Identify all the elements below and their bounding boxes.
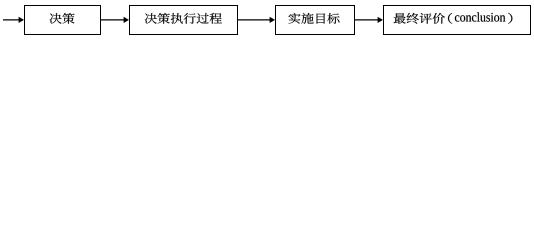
text fullwidth paren open: [448, 13, 452, 24]
arrow box3 to box4: [355, 17, 384, 23]
box1 决策: [25, 6, 101, 35]
arrow box2 to box3: [238, 17, 275, 23]
box4 最终评价（conclusion）: [384, 6, 531, 35]
text 决策执行过程: [145, 13, 222, 24]
box2 决策执行过程: [130, 6, 238, 35]
arrow box1 to box2: [101, 17, 130, 23]
text fullwidth paren close: [508, 13, 512, 24]
text conclusion: [455, 12, 505, 21]
box3 实施目标: [276, 6, 355, 35]
arrow into box1: [3, 17, 24, 23]
text 实施目标: [289, 13, 340, 24]
text 最终评价: [394, 13, 445, 24]
text 决策: [50, 13, 75, 24]
